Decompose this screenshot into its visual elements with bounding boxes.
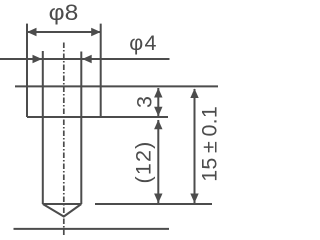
svg-text:3: 3: [133, 96, 157, 108]
svg-text:15 ± 0.1: 15 ± 0.1: [198, 106, 222, 182]
svg-text:φ4: φ4: [129, 31, 157, 55]
svg-text:φ8: φ8: [49, 0, 79, 24]
svg-text:(12): (12): [132, 140, 156, 183]
